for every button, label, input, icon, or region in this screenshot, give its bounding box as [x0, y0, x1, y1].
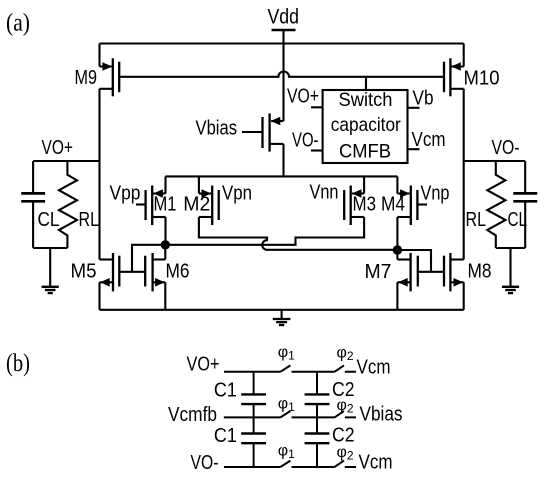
- wire: M2 drain cross-couple with hop to right node: [199, 217, 398, 250]
- svg-text:CL: CL: [508, 208, 528, 231]
- svg-text:Vbias: Vbias: [360, 402, 403, 425]
- wire: top Vdd rail: [100, 42, 464, 44]
- CMFB box connecting stub: [365, 77, 367, 90]
- transistor M9: [100, 44, 120, 97]
- wire: Vdd vertical down to Vbias transistor source: [282, 30, 284, 121]
- svg-text:capacitor: capacitor: [331, 114, 401, 136]
- svg-text:φ1: φ1: [278, 344, 295, 363]
- svg-text:M9: M9: [75, 66, 98, 89]
- svg-text:(a): (a): [6, 9, 30, 36]
- wire: left node to M5/M6 gates: [119, 245, 165, 272]
- node A junction dot (left): [161, 240, 170, 249]
- svg-text:VO-: VO-: [492, 136, 520, 159]
- capacitor C2 (lower): [305, 417, 330, 467]
- wire: M3 drain cross-couple to left node: [165, 217, 364, 245]
- transistor M3: [344, 176, 364, 225]
- svg-text:RL: RL: [466, 208, 487, 231]
- wire: left output rail: [98, 89, 100, 260]
- svg-text:M3: M3: [353, 192, 377, 215]
- wire: row VO-: [224, 466, 356, 468]
- node B junction dot (right): [393, 245, 402, 254]
- svg-text:C1: C1: [214, 379, 237, 402]
- svg-text:VO+: VO+: [42, 136, 74, 159]
- switch phi2 blade row1: [335, 365, 345, 371]
- svg-text:Vcm: Vcm: [359, 451, 393, 474]
- wire: load bottom connector (right): [496, 247, 525, 249]
- capacitor CL (left): [21, 161, 45, 248]
- svg-text:VO+: VO+: [187, 353, 220, 376]
- switch phi2 blade row3: [335, 461, 345, 467]
- svg-text:φ2: φ2: [337, 345, 354, 364]
- svg-text:VO-: VO-: [292, 129, 319, 152]
- svg-text:Vpn: Vpn: [222, 182, 252, 205]
- wire: VO- tap to load: [464, 160, 526, 162]
- svg-text:Vb: Vb: [413, 86, 434, 109]
- svg-text:Vnn: Vnn: [310, 180, 339, 203]
- transistor M7: [397, 250, 417, 310]
- wire: VO+ tap to load: [33, 160, 99, 162]
- transistor M6: [145, 245, 165, 310]
- pin Vb of CMFB box: [408, 107, 420, 109]
- svg-text:φ1: φ1: [278, 396, 295, 415]
- wire: right output rail: [463, 89, 465, 260]
- wire: bottom source rail: [100, 309, 464, 311]
- switch phi2 blade row2: [335, 411, 345, 417]
- svg-text:C1: C1: [214, 424, 237, 447]
- svg-text:Vcm: Vcm: [357, 356, 391, 379]
- wire: load bottom connector (left): [33, 247, 67, 249]
- transistor M4: [397, 176, 427, 250]
- resistor RL (right): [487, 161, 505, 248]
- wire: M1-M4 common source rail: [166, 175, 398, 177]
- svg-text:Vpp: Vpp: [110, 182, 141, 205]
- switch phi1 blade row3: [280, 461, 290, 467]
- capacitor CL (right): [513, 161, 537, 248]
- svg-text:Vcm: Vcm: [412, 128, 446, 151]
- svg-text:Vbias: Vbias: [196, 117, 238, 140]
- svg-text:VO-: VO-: [191, 451, 219, 474]
- wire: row Vcmfb: [224, 416, 356, 418]
- svg-text:CMFB: CMFB: [339, 141, 391, 163]
- wire: row VO+: [224, 371, 356, 373]
- svg-text:M6: M6: [166, 260, 190, 283]
- svg-text:φ2: φ2: [337, 444, 354, 463]
- transistor M10: [444, 44, 464, 97]
- transistor M1: [136, 176, 166, 244]
- svg-text:Switch: Switch: [339, 89, 393, 111]
- svg-text:M7: M7: [365, 260, 392, 283]
- svg-text:RL: RL: [79, 208, 100, 231]
- svg-text:VO+: VO+: [287, 85, 319, 108]
- wire: right node to M7/M8 gates: [397, 250, 444, 272]
- svg-text:CL: CL: [38, 208, 60, 231]
- transistor Vbias (tail PMOS): [242, 113, 284, 176]
- pin VO- of CMFB box: [311, 149, 323, 151]
- pin Vcm of CMFB box: [408, 148, 420, 150]
- svg-text:φ1: φ1: [278, 443, 295, 462]
- switch phi1 blade row1: [280, 365, 290, 371]
- switch phi1 blade row2: [280, 411, 290, 417]
- ground (center): [273, 310, 291, 325]
- svg-text:M1: M1: [154, 192, 177, 215]
- svg-text:M8: M8: [468, 260, 492, 283]
- svg-text:Vnp: Vnp: [421, 182, 450, 205]
- svg-text:M10: M10: [464, 67, 500, 90]
- svg-text:Vdd: Vdd: [268, 6, 300, 29]
- wire: M9/M10 gate rail with hop over Vdd line: [119, 72, 443, 77]
- capacitor C1 (upper): [241, 372, 266, 418]
- transistor M8: [444, 253, 464, 310]
- svg-text:M2: M2: [183, 192, 210, 215]
- capacitor C1 (lower): [241, 417, 266, 467]
- transistor M5: [100, 253, 120, 310]
- svg-text:Vcmfb: Vcmfb: [168, 403, 217, 426]
- capacitor C2 (upper): [305, 372, 330, 418]
- wire: Vdd supply bar: [272, 29, 296, 32]
- svg-text:M4: M4: [381, 192, 405, 215]
- ground (right load): [502, 248, 519, 293]
- resistor RL (left): [59, 161, 77, 248]
- svg-text:M5: M5: [71, 260, 97, 283]
- switch capacitor CMFB box: [323, 90, 408, 163]
- svg-text:(b): (b): [6, 350, 30, 377]
- ground (left load): [42, 248, 59, 293]
- transistor M2: [199, 176, 219, 225]
- pin VO+ of CMFB box: [311, 106, 323, 108]
